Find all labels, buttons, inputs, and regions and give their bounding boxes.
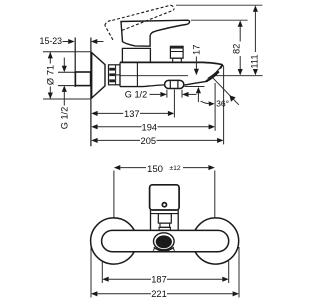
- arrow angle diagonal: [230, 95, 236, 102]
- diverter knob: [170, 46, 183, 58]
- arrow 221 left: [91, 291, 97, 296]
- union square: [75, 72, 90, 86]
- hose outlet bump: [165, 80, 184, 88]
- arrow 111 up: [253, 5, 258, 11]
- lower housing bottom: [120, 85, 150, 88]
- O71 ext lines: [43, 51, 91, 53]
- body top edge: [120, 62, 223, 65]
- svg-text:15-23: 15-23: [40, 36, 63, 46]
- arrow 15-23 right-pointing: [68, 39, 74, 44]
- lever handle solid: [121, 20, 190, 46]
- right escutcheon circle: [193, 218, 239, 264]
- angle arc: [201, 101, 212, 104]
- 15-23 dim: [63, 41, 69, 43]
- svg-text:±12: ±12: [169, 165, 181, 172]
- arrow 187 left: [102, 277, 108, 282]
- spout end face outer band: [208, 65, 223, 79]
- spout underside to tip: [184, 81, 208, 85]
- spout end face inner band: [206, 71, 219, 81]
- arrow G12 label down: [62, 66, 67, 72]
- body bottom reference line: [120, 75, 263, 77]
- body stadium: [102, 230, 229, 251]
- arrow 82 up: [238, 20, 243, 26]
- body left edge: [119, 62, 121, 86]
- left escutcheon circle: [91, 218, 137, 264]
- 137 dim: [98, 112, 124, 114]
- arrow G12 label up: [62, 86, 67, 92]
- svg-text:150: 150: [147, 164, 163, 175]
- arrow O71 down: [48, 93, 53, 99]
- 205 dim: [98, 139, 140, 141]
- front view: 150 dim: [120, 167, 146, 169]
- angle diagonal: [212, 77, 239, 105]
- svg-text:111: 111: [250, 54, 260, 68]
- ext line dashed top: [176, 4, 262, 6]
- 111 dim: [254, 12, 256, 53]
- smile arc: [154, 247, 174, 251]
- witness 194: [214, 83, 216, 131]
- svg-text:G 1/2: G 1/2: [125, 89, 147, 99]
- connection nut: [109, 65, 121, 85]
- spout end face white separator: [207, 69, 221, 80]
- G12 outlet dim: [150, 93, 161, 95]
- svg-text:Ø 71: Ø 71: [45, 65, 55, 85]
- lever handle dashed raised position: [105, 5, 174, 40]
- arrow 137 right: [168, 111, 174, 116]
- arrow 15-23 left-pointing: [91, 39, 97, 44]
- svg-text:221: 221: [151, 289, 167, 299]
- arrow 111 down: [253, 69, 258, 75]
- diverter outer ellipse: [154, 233, 175, 250]
- handle dot: [162, 203, 166, 207]
- wall line: [74, 38, 76, 88]
- escutcheon cone: [91, 52, 105, 99]
- arrow G12 outlet left: [160, 92, 166, 97]
- svg-text:17: 17: [192, 45, 202, 55]
- svg-text:82: 82: [232, 44, 242, 54]
- FRONT VIEW: [91, 185, 239, 264]
- arrow 17 down: [194, 69, 199, 75]
- arrow 137 left: [91, 111, 97, 116]
- 221 dim: [97, 293, 151, 295]
- cartridge cap: [122, 48, 150, 62]
- arrowheads: [48, 5, 258, 296]
- handle head: [150, 185, 180, 210]
- arrow angle arc: [209, 101, 215, 106]
- spout underside: [150, 85, 165, 86]
- arrow 194 right: [209, 124, 215, 129]
- arrow 205 right: [217, 138, 223, 143]
- 17 dim: [195, 57, 197, 70]
- arrow 82 down: [238, 69, 243, 75]
- arrow 17 lower up: [196, 87, 201, 93]
- 82 dim: [239, 27, 241, 42]
- spout tip white mask: [188, 62, 223, 85]
- ext line lever top: [191, 19, 248, 21]
- housing right edge: [136, 62, 138, 86]
- arrow 221 right: [233, 291, 239, 296]
- arrow 150 left: [114, 165, 120, 170]
- svg-text:G 1/2: G 1/2: [60, 107, 70, 129]
- svg-text:187: 187: [151, 274, 167, 284]
- witness 205: [223, 66, 225, 145]
- escutcheon back plane line: [90, 38, 92, 147]
- arrow 150 right: [208, 165, 214, 170]
- arrow O71 up: [48, 52, 53, 58]
- svg-text:205: 205: [141, 136, 157, 146]
- svg-text:194: 194: [142, 122, 158, 132]
- 187 dim: [109, 278, 151, 280]
- witness 137: [173, 90, 175, 118]
- arrow 194 left: [91, 124, 97, 129]
- dimension lines group: [43, 5, 262, 297]
- arrow G12 outlet right: [182, 92, 188, 97]
- svg-text:36°: 36°: [216, 98, 229, 108]
- sleeve: [150, 210, 152, 230]
- G12 left label lines: [63, 58, 65, 67]
- arrow 205 left: [91, 138, 97, 143]
- G12 witness ticks: [58, 71, 75, 73]
- arrow 187 right: [222, 277, 228, 282]
- svg-text:137: 137: [124, 109, 140, 119]
- diverter inner dark: [156, 235, 172, 248]
- O71 dim line: [49, 52, 51, 64]
- 194 dim: [98, 126, 142, 128]
